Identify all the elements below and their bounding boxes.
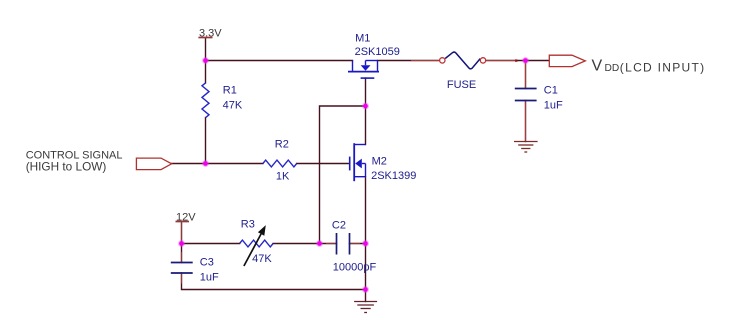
svg-text:47K: 47K [223, 99, 243, 111]
svg-text:2SK1399: 2SK1399 [371, 170, 416, 182]
svg-text:1K: 1K [276, 170, 290, 182]
svg-text:R2: R2 [275, 139, 289, 151]
svg-text:C1: C1 [544, 85, 558, 97]
svg-text:(HIGH to LOW): (HIGH to LOW) [26, 159, 107, 173]
svg-text:(LCD INPUT): (LCD INPUT) [620, 61, 706, 75]
svg-text:M1: M1 [355, 33, 370, 45]
svg-text:12V: 12V [176, 211, 196, 223]
svg-text:C3: C3 [200, 257, 214, 269]
svg-text:M2: M2 [372, 156, 387, 168]
svg-text:2SK1059: 2SK1059 [355, 46, 400, 58]
svg-text:DD: DD [605, 63, 620, 74]
svg-text:3.3V: 3.3V [199, 28, 222, 40]
svg-text:V: V [592, 58, 603, 75]
svg-text:1uF: 1uF [544, 99, 563, 111]
svg-text:1uF: 1uF [200, 272, 219, 284]
svg-text:R1: R1 [223, 84, 237, 96]
svg-text:47K: 47K [252, 253, 272, 265]
svg-text:10000pF: 10000pF [333, 262, 377, 274]
svg-text:R3: R3 [241, 218, 255, 230]
svg-text:FUSE: FUSE [447, 79, 476, 91]
svg-text:C2: C2 [332, 219, 346, 231]
